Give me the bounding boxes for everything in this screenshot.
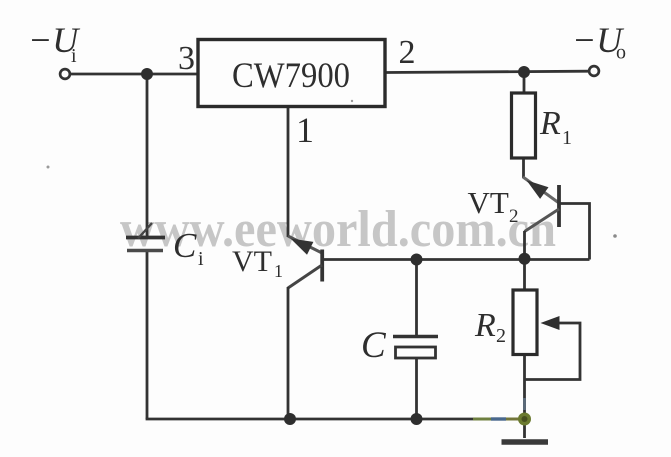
svg-text:i: i — [198, 248, 204, 270]
svg-text:CW7900: CW7900 — [232, 55, 350, 95]
svg-text:1: 1 — [274, 261, 283, 281]
svg-text:R: R — [474, 307, 496, 344]
svg-text:VT: VT — [468, 185, 509, 220]
svg-text:2: 2 — [509, 206, 519, 227]
svg-text:i: i — [71, 45, 77, 67]
svg-text:o: o — [616, 42, 626, 64]
svg-text:C: C — [361, 325, 387, 366]
svg-text:2: 2 — [496, 325, 506, 347]
svg-text:3: 3 — [178, 40, 195, 77]
svg-text:C: C — [173, 226, 197, 265]
svg-text:1: 1 — [296, 110, 314, 150]
svg-text:1: 1 — [562, 127, 572, 149]
svg-text:2: 2 — [399, 34, 416, 71]
svg-text:R: R — [539, 105, 561, 142]
svg-text:VT: VT — [232, 245, 272, 278]
